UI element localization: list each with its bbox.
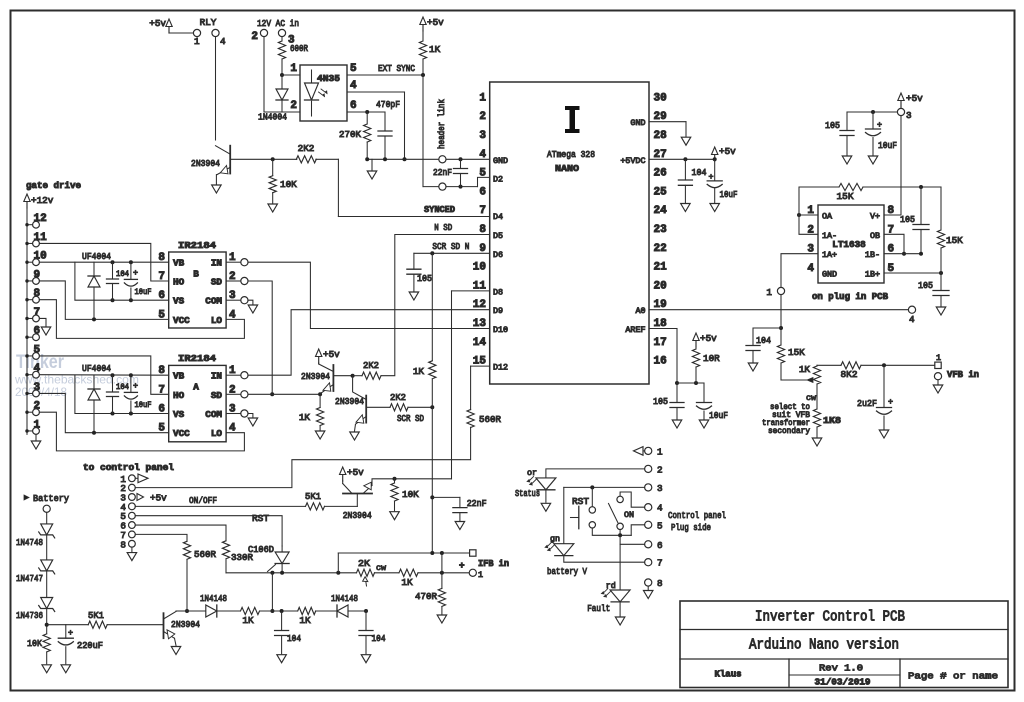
svg-text:VCC: VCC [173, 315, 190, 326]
svg-text:LT1638: LT1638 [832, 239, 866, 250]
svg-text:26: 26 [654, 168, 667, 180]
svg-text:5: 5 [34, 344, 41, 356]
svg-text:2u2F: 2u2F [857, 398, 877, 409]
svg-text:560R: 560R [194, 549, 216, 560]
svg-text:104: 104 [372, 633, 386, 644]
svg-text:VB: VB [173, 258, 185, 269]
svg-text:UF4004: UF4004 [82, 251, 111, 262]
svg-text:2K: 2K [358, 558, 370, 569]
svg-text:C106D: C106D [248, 544, 274, 555]
svg-text:22nF: 22nF [433, 167, 452, 178]
svg-text:+: + [888, 397, 893, 407]
svg-text:560R: 560R [479, 414, 501, 425]
svg-text:4: 4 [807, 263, 814, 275]
svg-text:1K: 1K [299, 615, 311, 626]
svg-text:+5v: +5v [427, 17, 444, 28]
svg-text:5: 5 [657, 520, 663, 531]
svg-text:D6: D6 [493, 250, 503, 260]
svg-text:D10: D10 [493, 325, 508, 335]
svg-text:IN: IN [211, 371, 222, 382]
svg-text:VFB in: VFB in [947, 369, 979, 380]
svg-text:1: 1 [657, 446, 663, 457]
svg-text:1K: 1K [242, 615, 254, 626]
svg-text:GND: GND [822, 270, 837, 280]
svg-text:+5v: +5v [906, 93, 923, 104]
svg-text:2: 2 [657, 464, 663, 475]
svg-text:270K: 270K [339, 129, 361, 140]
svg-text:1A-: 1A- [822, 231, 837, 241]
svg-text:Tinker: Tinker [16, 352, 65, 373]
svg-text:2009/4/18: 2009/4/18 [15, 385, 67, 399]
svg-text:OB: OB [870, 231, 880, 241]
svg-text:+5v: +5v [323, 349, 340, 360]
svg-text:105: 105 [918, 280, 933, 291]
svg-text:LO: LO [211, 315, 223, 326]
svg-text:B: B [193, 269, 199, 280]
svg-text:17: 17 [654, 337, 667, 349]
svg-text:Arduino Nano version: Arduino Nano version [749, 638, 899, 654]
svg-text:12V AC in: 12V AC in [257, 18, 299, 29]
svg-text:1K: 1K [799, 364, 811, 375]
svg-text:RST: RST [252, 513, 269, 524]
svg-text:7: 7 [34, 307, 41, 319]
svg-text:4: 4 [909, 314, 915, 325]
svg-text:2K2: 2K2 [363, 360, 379, 371]
svg-text:2: 2 [290, 100, 297, 112]
svg-text:7: 7 [158, 271, 165, 283]
svg-text:2: 2 [34, 401, 41, 413]
svg-text:6: 6 [479, 186, 486, 198]
svg-text:D12: D12 [493, 363, 508, 373]
svg-text:10R: 10R [703, 353, 720, 364]
svg-text:+: + [133, 381, 138, 391]
svg-text:Rev 1.0: Rev 1.0 [819, 663, 863, 674]
svg-text:4: 4 [220, 36, 226, 47]
svg-text:1N4004: 1N4004 [258, 112, 287, 123]
svg-text:+: + [68, 628, 73, 638]
svg-text:105: 105 [900, 214, 915, 225]
svg-text:+12v: +12v [31, 195, 54, 206]
svg-text:8K2: 8K2 [841, 369, 858, 380]
svg-text:22: 22 [654, 243, 667, 255]
svg-text:4: 4 [657, 503, 663, 514]
svg-text:6: 6 [158, 290, 165, 302]
svg-text:IN: IN [211, 258, 222, 269]
svg-text:IR2184: IR2184 [178, 353, 216, 364]
svg-text:10uF: 10uF [878, 140, 897, 151]
svg-text:2N3904: 2N3904 [343, 510, 372, 521]
svg-text:24: 24 [654, 205, 668, 217]
svg-text:+5v: +5v [150, 493, 167, 504]
svg-text:header link: header link [436, 99, 447, 149]
svg-text:VS: VS [173, 296, 185, 307]
svg-text:4: 4 [229, 423, 236, 435]
svg-text:D4: D4 [493, 212, 503, 222]
svg-text:2N3904: 2N3904 [335, 396, 364, 407]
svg-text:IFB in: IFB in [478, 558, 509, 569]
svg-text:5: 5 [479, 168, 486, 180]
svg-text:GND: GND [493, 156, 508, 166]
svg-text:28: 28 [654, 130, 668, 142]
svg-text:1K: 1K [413, 366, 425, 377]
svg-text:8: 8 [657, 578, 663, 589]
svg-text:1: 1 [478, 570, 483, 580]
svg-text:RLY: RLY [200, 17, 217, 28]
svg-text:UF4004: UF4004 [82, 363, 111, 374]
svg-text:1N4736: 1N4736 [16, 610, 43, 621]
svg-text:7: 7 [479, 205, 486, 217]
svg-text:2K2: 2K2 [390, 392, 406, 403]
svg-text:10uF: 10uF [709, 410, 728, 421]
svg-text:2N3904: 2N3904 [171, 619, 200, 630]
svg-text:1: 1 [936, 353, 941, 363]
svg-text:1A+: 1A+ [822, 250, 837, 260]
svg-text:5: 5 [350, 63, 357, 75]
svg-text:ON/OFF: ON/OFF [189, 495, 217, 506]
svg-text:1K: 1K [299, 412, 311, 423]
svg-text:cw: cw [376, 563, 386, 573]
svg-text:Battery: Battery [33, 493, 69, 504]
svg-text:30: 30 [654, 92, 667, 104]
svg-text:3: 3 [34, 382, 41, 394]
svg-text:8: 8 [158, 252, 165, 264]
svg-text:1K8: 1K8 [823, 415, 841, 426]
svg-text:1: 1 [766, 287, 772, 298]
svg-text:A: A [193, 382, 199, 393]
svg-text:6: 6 [657, 540, 663, 551]
svg-text:15K: 15K [837, 191, 854, 202]
svg-text:secondary: secondary [768, 426, 810, 436]
svg-text:HO: HO [173, 277, 185, 288]
svg-text:Klaus: Klaus [715, 669, 742, 680]
svg-text:1N4747: 1N4747 [16, 573, 43, 584]
svg-text:10uF: 10uF [720, 189, 738, 200]
svg-text:VCC: VCC [173, 428, 190, 439]
svg-text:7: 7 [657, 558, 663, 569]
svg-text:battery V: battery V [547, 566, 587, 577]
svg-text:105: 105 [825, 120, 840, 131]
svg-text:Status: Status [515, 488, 540, 499]
svg-text:6: 6 [350, 100, 357, 112]
svg-text:1: 1 [479, 92, 486, 104]
svg-text:+: + [877, 120, 882, 130]
svg-text:1B+: 1B+ [865, 270, 880, 280]
svg-text:Inverter Control PCB: Inverter Control PCB [755, 610, 905, 626]
svg-text:3: 3 [479, 130, 486, 142]
svg-text:SYNCED: SYNCED [424, 204, 455, 215]
svg-text:on plug in PCB: on plug in PCB [812, 291, 888, 302]
svg-text:2: 2 [479, 111, 486, 123]
svg-text:104: 104 [692, 167, 707, 178]
svg-text:EXT SYNC: EXT SYNC [378, 63, 415, 74]
svg-text:10uF: 10uF [135, 400, 152, 410]
svg-text:VB: VB [173, 371, 185, 382]
svg-text:Fault: Fault [587, 603, 610, 614]
svg-text:gn: gn [550, 534, 560, 544]
svg-text:21: 21 [654, 262, 668, 274]
svg-text:+5v: +5v [700, 333, 717, 344]
svg-text:6: 6 [34, 326, 41, 338]
svg-text:AREF: AREF [625, 325, 645, 335]
svg-text:SD: SD [211, 390, 223, 401]
svg-text:22nF: 22nF [467, 498, 487, 509]
svg-text:to control panel: to control panel [83, 462, 174, 473]
svg-text:10K: 10K [27, 638, 42, 649]
svg-text:Page # or name: Page # or name [908, 671, 998, 682]
svg-text:4N35: 4N35 [317, 73, 340, 84]
svg-text:104: 104 [116, 382, 129, 392]
svg-text:5K1: 5K1 [88, 610, 104, 621]
svg-text:IR2184: IR2184 [178, 240, 216, 251]
svg-text:10K: 10K [280, 179, 297, 190]
svg-text:VS: VS [173, 409, 185, 420]
svg-text:2: 2 [251, 31, 258, 43]
svg-text:8: 8 [34, 288, 41, 300]
svg-text:+: + [709, 172, 714, 182]
svg-text:14: 14 [473, 337, 487, 349]
svg-text:4: 4 [479, 149, 486, 161]
svg-text:RST: RST [572, 496, 589, 507]
svg-text:31/03/2019: 31/03/2019 [815, 677, 871, 688]
svg-text:16: 16 [654, 356, 667, 368]
svg-text:105: 105 [653, 396, 668, 407]
svg-text:1N4148: 1N4148 [200, 593, 227, 604]
svg-text:5: 5 [158, 309, 165, 321]
svg-text:+5v: +5v [347, 467, 364, 478]
svg-text:2K2: 2K2 [298, 143, 315, 154]
svg-text:HO: HO [173, 390, 185, 401]
svg-text:9: 9 [34, 269, 41, 281]
svg-text:N SD: N SD [434, 222, 452, 233]
svg-text:D9: D9 [493, 306, 503, 316]
svg-text:10: 10 [473, 262, 486, 274]
svg-text:+5v: +5v [719, 146, 736, 157]
svg-text:470pF: 470pF [376, 99, 400, 110]
svg-text:or: or [527, 468, 537, 478]
svg-text:4: 4 [229, 309, 236, 321]
svg-text:1: 1 [290, 63, 297, 75]
svg-text:+5v: +5v [149, 18, 166, 29]
svg-text:15K: 15K [946, 235, 963, 246]
svg-text:12: 12 [34, 213, 47, 225]
svg-text:1N4748: 1N4748 [16, 537, 43, 548]
svg-text:V+: V+ [870, 212, 880, 222]
svg-text:NANO: NANO [555, 163, 579, 174]
svg-text:COM: COM [205, 409, 222, 420]
svg-text:SD: SD [211, 277, 223, 288]
svg-text:220uF: 220uF [77, 640, 103, 651]
svg-text:6: 6 [158, 404, 165, 416]
svg-text:470R: 470R [415, 591, 437, 602]
svg-text:ON: ON [624, 510, 634, 520]
svg-text:SCR SD N: SCR SD N [432, 241, 469, 252]
svg-text:D5: D5 [493, 231, 503, 241]
svg-text:D2: D2 [493, 175, 503, 185]
svg-text:5K1: 5K1 [305, 491, 321, 502]
svg-text:8: 8 [120, 539, 126, 550]
svg-text:105: 105 [417, 273, 432, 284]
svg-text:+: + [459, 560, 465, 571]
svg-text:1B-: 1B- [865, 250, 880, 260]
svg-text:1: 1 [194, 36, 200, 47]
svg-text:10uF: 10uF [135, 287, 152, 297]
svg-text:11: 11 [34, 232, 48, 244]
svg-text:104: 104 [287, 633, 301, 644]
svg-text:gate drive: gate drive [26, 180, 81, 191]
svg-text:GND: GND [630, 118, 645, 128]
svg-text:D8: D8 [493, 287, 503, 297]
svg-text:23: 23 [654, 224, 668, 236]
svg-text:15K: 15K [788, 347, 805, 358]
svg-text:OA: OA [822, 212, 833, 222]
svg-text:2N3904: 2N3904 [191, 158, 220, 169]
svg-text:600R: 600R [290, 43, 308, 54]
svg-text:8: 8 [158, 365, 165, 377]
svg-text:SCR SD: SCR SD [397, 413, 424, 424]
svg-text:4: 4 [34, 363, 41, 375]
svg-text:Plug side: Plug side [671, 522, 711, 533]
svg-text:104: 104 [756, 335, 771, 346]
svg-text:1: 1 [34, 419, 41, 431]
svg-text:+: + [133, 268, 138, 278]
svg-text:1N4148: 1N4148 [331, 593, 358, 604]
svg-text:3: 3 [657, 483, 663, 494]
svg-text:10: 10 [34, 251, 47, 263]
svg-text:Control panel: Control panel [668, 510, 726, 521]
svg-text:A0: A0 [635, 306, 645, 316]
svg-text:+5VDC: +5VDC [620, 156, 645, 166]
svg-text:104: 104 [116, 269, 129, 279]
svg-text:LO: LO [211, 428, 223, 439]
svg-text:3: 3 [906, 110, 912, 121]
svg-text:1K: 1K [401, 577, 413, 588]
svg-text:4: 4 [350, 80, 357, 92]
svg-text:rd: rd [606, 581, 616, 591]
svg-text:ATmega 328: ATmega 328 [547, 149, 595, 160]
svg-text:COM: COM [205, 296, 222, 307]
svg-text:10K: 10K [402, 489, 419, 500]
svg-text:25: 25 [654, 186, 668, 198]
svg-text:7: 7 [158, 384, 165, 396]
svg-text:20: 20 [654, 280, 667, 292]
svg-text:1K: 1K [429, 44, 441, 55]
svg-text:2N3904: 2N3904 [301, 371, 330, 382]
svg-text:5: 5 [158, 423, 165, 435]
